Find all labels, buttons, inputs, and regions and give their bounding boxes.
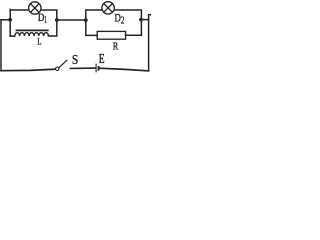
wire left inner vertical (D1/L left side) — [9, 9, 11, 36]
inductor L coil — [15, 33, 49, 37]
resistor R box — [97, 31, 125, 39]
svg-text:1: 1 — [44, 15, 47, 26]
node dot A (D1/L right junction) — [55, 18, 59, 22]
inductor L core bar — [16, 29, 49, 31]
node dot left (D1-L-stub junction) — [8, 18, 12, 22]
wire bottom left run to switch — [1, 69, 55, 71]
wire R left riser and lead — [86, 20, 97, 35]
battery E short thick plate — [98, 66, 100, 71]
wire R right lead — [126, 34, 142, 36]
wire top-left lead to D1 — [10, 9, 29, 11]
battery E long plate — [95, 64, 97, 73]
wire outer left vertical down to bottom — [0, 20, 2, 71]
wire D2 right lead and right inner vertical — [114, 10, 141, 35]
wire bottom right run battery to corner — [100, 68, 149, 71]
svg-text:2: 2 — [121, 16, 125, 27]
wire right stub to outer conductor — [141, 19, 149, 21]
wire bottom middle run switch contact to battery — [70, 67, 95, 69]
wire middle link between nodes — [57, 19, 86, 21]
lamp D1 — [29, 2, 41, 14]
wire outer right vertical with top corner — [149, 15, 151, 71]
svg-text:L: L — [37, 38, 41, 48]
switch S blade — [59, 60, 67, 68]
node dot right (D2-R-stub junction) — [139, 18, 143, 22]
wire D1 right lead and drop to node — [41, 10, 57, 20]
svg-text:R: R — [113, 41, 119, 52]
wire L left lead from corner — [10, 35, 15, 37]
node dot B (D2/R left junction) — [84, 18, 88, 22]
wire D2 left riser and lead — [86, 10, 102, 20]
wire left stub to outer conductor — [1, 19, 10, 21]
lamp D2 — [102, 2, 114, 14]
svg-text:E: E — [99, 51, 105, 66]
switch S pivot — [56, 67, 59, 70]
svg-text:S: S — [72, 53, 78, 68]
wire L right lead riser from coil to node — [48, 20, 56, 36]
